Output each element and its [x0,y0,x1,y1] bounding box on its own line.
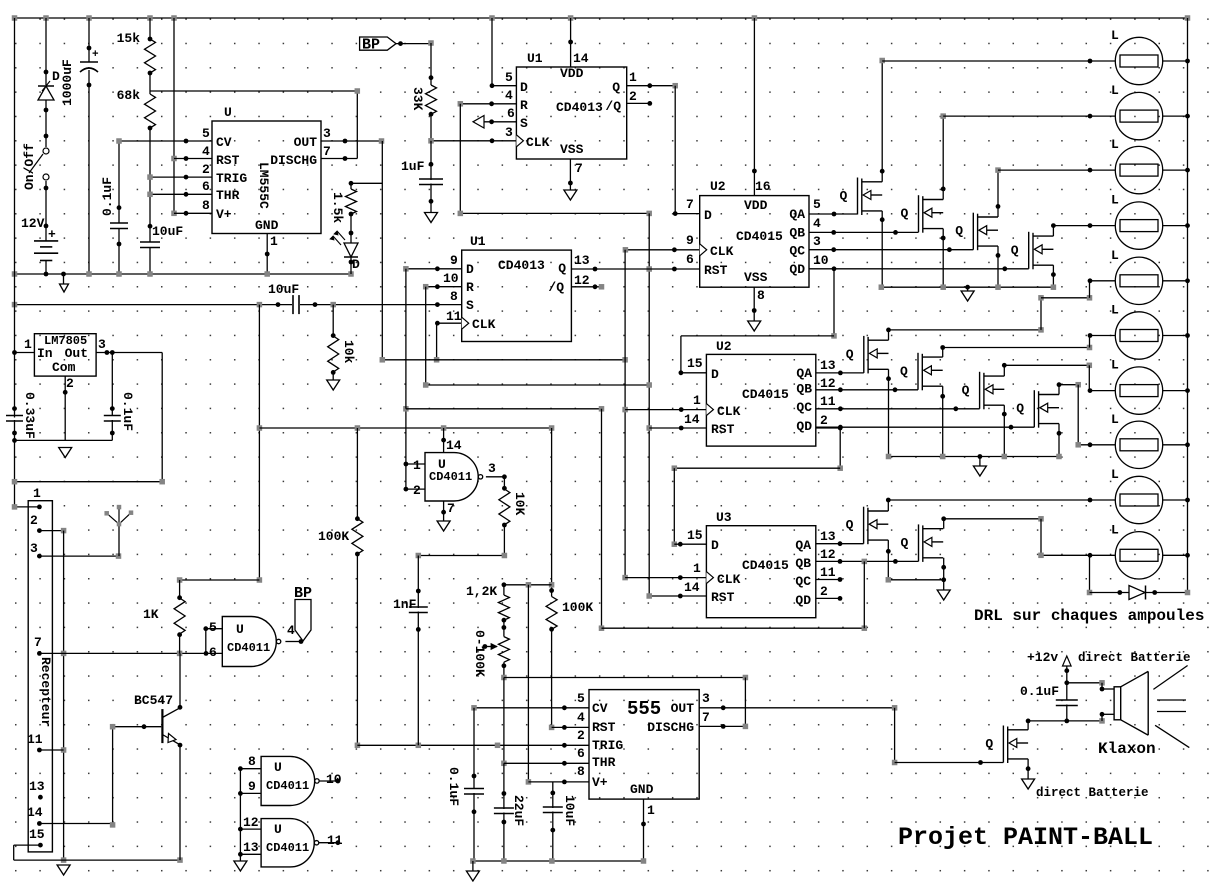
svg-text:6: 6 [507,106,515,121]
svg-text:22uF: 22uF [511,795,526,826]
svg-text:0.1uF: 0.1uF [120,392,135,431]
wire lamp row y=390.6 [1089,390,1115,392]
wire clock to CLK pin1 of U3 [625,577,706,579]
wire QD pin10 to M4 gate [809,268,1029,270]
svg-text:5: 5 [209,620,217,635]
wire QD2 of U2b to M8 gate [816,426,1035,428]
wire QA pin5 to M1 gate [809,213,858,215]
svg-text:BP: BP [362,37,380,54]
wire D pin5 of U1 [491,18,493,86]
svg-text:U: U [224,105,232,120]
wire NAND1 output pin3 [486,476,505,478]
svg-text:VSS: VSS [560,142,584,157]
svg-text:6: 6 [686,252,694,267]
wire NAND1 input2 [406,488,425,490]
wire QC11 of U2b to M7 gate [816,408,980,410]
svg-text:8: 8 [202,198,210,213]
svg-text:CD4015: CD4015 [742,558,789,573]
wire M11 source [1027,759,1029,779]
svg-text:U: U [274,760,282,775]
shift register U2 CD4015 (top) [700,196,809,288]
svg-text:U1: U1 [470,234,486,249]
svg-text:QD: QD [795,593,811,608]
wire BC547 emitter [179,745,181,860]
svg-text:4: 4 [813,216,821,231]
regulator LM7805 [34,334,96,376]
lamp L (row y=335.5) [1115,312,1162,359]
svg-text:D: D [520,80,528,95]
resistor 10K [503,477,505,489]
svg-text:2: 2 [577,728,585,743]
svg-text:Q: Q [962,383,970,398]
svg-text:6: 6 [202,179,210,194]
wire middle cluster source rail [889,456,1060,458]
svg-text:/Q: /Q [605,99,621,114]
wire left rail upper [14,18,16,418]
wire QD pin10 branch to U2b D [833,269,835,336]
wire CV row of 555b [474,707,589,709]
wire reset to RST pin14 of U3 [649,595,706,597]
wire right return rail [1187,18,1189,593]
lamp L (row y=61) [1115,37,1162,84]
wire bottom ground rail (555b) [473,860,644,862]
svg-text:RST: RST [704,263,728,278]
wire /Q pin2 of U1 (stub) [627,102,650,104]
svg-text:QA: QA [795,538,811,553]
resistor 1,2K [503,585,505,595]
wire NAND1 input1 [406,463,425,465]
wire M5 source [888,369,890,456]
svg-text:10uF: 10uF [562,795,577,826]
resistor 1K [180,579,260,581]
svg-text:6: 6 [577,746,585,761]
svg-text:D: D [711,538,719,553]
switch On/Off [43,148,49,154]
svg-text:L: L [1111,248,1119,263]
svg-text:0.33uF: 0.33uF [22,392,37,439]
capacitor 1nF [417,556,419,609]
wire M10 drain to lamp10 [943,519,945,529]
wire 12V distribution vertical [258,305,260,580]
svg-text:6: 6 [209,645,217,660]
svg-text:OUT: OUT [294,135,318,150]
wire Com pin2 of LM7805 [64,376,66,440]
svg-text:1K: 1K [143,607,159,622]
ground (U2 VSS) [748,321,761,331]
wire QB pin4 to M2 gate [809,231,919,233]
svg-text:7: 7 [575,161,583,176]
svg-text:In: In [37,346,53,361]
svg-text:14: 14 [684,412,700,427]
svg-text:QA: QA [796,366,812,381]
svg-text:555: 555 [627,698,661,720]
wire pot to DISCHG [504,677,746,679]
wire lamp row y=444.8 [1078,444,1115,446]
svg-text:2: 2 [629,89,637,104]
wire V+ row [527,585,529,782]
svg-text:2: 2 [30,513,38,528]
svg-text:1uF: 1uF [401,159,425,174]
lamp L (row y=116.1) [1115,92,1162,139]
ground (555b rail) [472,861,474,871]
svg-text:QD: QD [789,262,805,277]
svg-text:THR: THR [216,188,240,203]
potentiometer 0-100K [498,637,509,663]
svg-text:GND: GND [255,218,279,233]
svg-text:Q: Q [558,261,566,276]
wire R pin4 of U1 [460,103,516,105]
svg-text:L: L [1111,28,1119,43]
svg-text:10uF: 10uF [152,224,183,239]
wire bottom-left ground row [14,859,180,861]
wire lamp row y=116.1 [943,115,1115,117]
svg-text:L: L [1111,303,1119,318]
svg-text:16: 16 [755,179,771,194]
wire QB12 of U3 to M10 gate [816,560,919,562]
wire V+ pin8 [174,212,212,214]
svg-text:1.5k: 1.5k [330,192,345,223]
transistor Q (M11 klaxon) [1003,726,1028,764]
svg-text:1,2K: 1,2K [466,584,497,599]
resistor 33K [430,43,432,85]
svg-text:12: 12 [574,273,590,288]
gate U CD4011 (spare B) [261,819,314,867]
capacitor 10uF (coupling) [293,295,299,314]
flag BP (pushbutton net) [360,37,396,50]
svg-text:U3: U3 [716,510,732,525]
svg-text:QC: QC [796,400,812,415]
wire S pin8 of U1b from 10uF [300,304,462,306]
svg-text:2: 2 [820,584,828,599]
svg-text:7: 7 [686,197,694,212]
wire Out pin3 of LM7805 [96,352,162,354]
wire pin2 to ground chain [37,528,42,533]
svg-text:Q: Q [901,535,909,550]
svg-text:0.1uF: 0.1uF [1020,684,1059,699]
wire VSS pin8 of U2 [753,287,755,321]
wire lamp row y=280.8 [1090,280,1116,282]
svg-text:BC547: BC547 [134,693,173,708]
flip-flop U1 CD4013 (second) [462,250,572,341]
flip-flop U1 CD4013 (top) [516,67,626,159]
svg-text:OUT: OUT [671,701,695,716]
svg-text:12: 12 [243,815,259,830]
svg-text:QD: QD [796,419,812,434]
svg-text:direct Batterie: direct Batterie [1036,786,1149,800]
wire /Q pin12 of U1b stub [571,286,601,288]
wire OUT to clock bus [381,141,383,360]
svg-text:0-100K: 0-100K [472,630,487,677]
svg-text:D: D [711,367,719,382]
wire CV pin5 [119,140,212,142]
svg-text:L: L [1111,137,1119,152]
wire DRL diode row [1090,592,1130,594]
wire 10K to 1nF node [418,555,504,557]
wire 555b OUT to M11 gate [894,708,896,763]
svg-text:CD4011: CD4011 [429,470,472,484]
wire reset to RST pin14 of U2b [649,427,706,429]
wire rail to connector pin1 [15,506,40,508]
wire lamp row y=335.5 [1090,335,1116,337]
wire CLK pin9 of U2 [625,249,699,251]
wire V+ feed row [504,584,552,586]
wire lamp row y=225.6 [1053,225,1115,227]
svg-text:CV: CV [216,135,232,150]
svg-text:5: 5 [577,691,585,706]
svg-text:14: 14 [684,580,700,595]
svg-text:GND: GND [630,782,654,797]
wire top cluster source rail [881,286,1053,288]
lamp L (row y=444.8) [1115,421,1162,468]
svg-text:3: 3 [488,461,496,476]
svg-text:9: 9 [450,253,458,268]
svg-text:Klaxon: Klaxon [1098,740,1156,758]
wire BP to 33K [396,43,431,45]
svg-text:VDD: VDD [560,66,584,81]
svg-text:CLK: CLK [472,317,496,332]
wire +12V top rail [15,17,1188,19]
svg-text:10K: 10K [512,492,527,516]
svg-text:0.1uF: 0.1uF [100,177,115,216]
svg-text:U: U [236,622,244,637]
wire M8 drain to lamp8 [1058,385,1060,395]
svg-text:CD4015: CD4015 [742,387,789,402]
svg-text:L: L [1111,522,1119,537]
wire NAND2 input5 tie [206,628,223,630]
svg-text:Q: Q [1011,243,1019,258]
svg-text:D: D [466,262,474,277]
wire M6 drain to lamp6 [942,348,944,358]
wire THR row [504,762,589,764]
ground (NAND1) [437,521,450,531]
wire VDD pin14 of U1 [570,18,572,67]
capacitor 0.1uF (CV) [118,141,120,223]
svg-text:11: 11 [327,833,343,848]
svg-text:CD4013: CD4013 [556,100,603,115]
svg-text:D: D [352,257,360,272]
wire 100K feed vertical (TRIG net) [356,428,358,519]
svg-text:V+: V+ [592,775,608,790]
svg-text:13: 13 [243,840,259,855]
wire lamp row y=500 [888,499,1115,501]
transistor Q (M8) [1034,390,1059,428]
transistor Q (M2) [919,195,944,233]
svg-text:3: 3 [813,234,821,249]
timer U LM555C [212,121,321,234]
speaker Klaxon [1114,687,1121,720]
capacitor 1uF [430,141,432,180]
svg-text:11: 11 [446,309,462,324]
wire pin3 to antenna [37,554,42,559]
ground (bottom cluster) [943,580,945,590]
svg-text:15: 15 [687,528,703,543]
svg-text:+12v: +12v [1027,650,1058,665]
resistor 68k [145,94,156,128]
svg-text:9: 9 [686,233,694,248]
gate U CD4011 (spare A) [261,756,315,805]
svg-text:Q: Q [900,364,908,379]
wire RST pin6 of U2 / reset row [571,268,699,270]
wire THR pin6 [150,193,212,195]
svg-text:RST: RST [216,153,240,168]
svg-text:100K: 100K [562,600,593,615]
wire lamp row y=61 [882,60,1115,62]
svg-text:U2: U2 [716,339,732,354]
wire 12V distribution row [259,427,551,429]
timer 555 (alarm) [589,690,699,800]
svg-text:U: U [274,822,282,837]
wire M7 drain to lamp7 [1003,365,1005,376]
lamp L (row y=500) [1115,476,1162,523]
wire GND pin1 of 555b [643,799,645,861]
svg-text:3: 3 [30,541,38,556]
svg-text:RST: RST [711,422,735,437]
svg-text:15: 15 [29,827,45,842]
capacitor 1000uF [88,18,90,62]
wire M4 drain to lamp4 [1052,226,1054,237]
svg-text:1nF: 1nF [393,597,417,612]
transistor Q (M9) [864,507,889,545]
wire QD2 of U3 stub [816,597,840,599]
transistor Q (M4) [1029,232,1054,269]
svg-text:L: L [1111,358,1119,373]
svg-text:S: S [466,298,474,313]
wire Out net down-left to +5V rail [161,353,163,482]
resistor 100K (trigger) [355,516,360,556]
svg-text:7: 7 [34,635,42,650]
svg-text:11: 11 [820,394,836,409]
svg-text:Recepteur: Recepteur [38,657,53,727]
svg-text:QB: QB [789,226,805,241]
svg-text:13: 13 [29,779,45,794]
wire S pin6 of U1 with input arrow [484,121,516,123]
capacitor 0.33uF [6,416,23,422]
svg-text:BP: BP [294,585,312,602]
ground (U1 VSS) [564,190,577,200]
svg-text:1000uF: 1000uF [60,59,75,106]
wire M5 drain to lamp5 [888,330,890,340]
capacitor 0.1uF (7805 out) [111,353,113,416]
svg-text:2: 2 [413,483,421,498]
transistor Q (M10) [919,524,944,562]
svg-text:/Q: /Q [548,280,564,295]
svg-text:CD4011: CD4011 [266,779,309,793]
svg-text:1: 1 [693,393,701,408]
wire OUT pin3 [321,140,382,142]
svg-text:CD4013: CD4013 [498,258,545,273]
wire DISCHG pin7 [321,158,357,160]
svg-text:3: 3 [505,125,513,140]
transistor Q (M7) [980,372,1005,410]
svg-text:DISCHG: DISCHG [270,153,317,168]
wire BC547 base [113,726,162,728]
wire NAND3 inputs [240,768,261,770]
svg-text:Q: Q [846,518,854,533]
wire CLK pin11 of U1b [437,322,462,324]
wire NAND2 output to BP flag [285,641,301,643]
svg-text:THR: THR [592,755,616,770]
wire M7 source [1003,405,1005,456]
wire QC pin3 to M3 gate [809,249,973,251]
svg-text:10: 10 [813,253,829,268]
svg-text:1: 1 [413,458,421,473]
transistor Q (M3) [973,213,998,251]
ground (M11, direct Batterie) [1022,779,1035,789]
svg-text:CLK: CLK [717,572,741,587]
svg-text:DISCHG: DISCHG [647,720,694,735]
svg-text:1: 1 [629,70,637,85]
svg-text:13: 13 [820,529,836,544]
svg-text:8: 8 [450,289,458,304]
antenna [118,524,120,556]
svg-text:CD4011: CD4011 [266,841,309,855]
svg-text:Q: Q [985,737,993,752]
svg-text:3: 3 [323,126,331,141]
node pin1 [37,505,42,510]
wire NAND4 output [319,842,338,844]
lamp L (row y=280.8) [1115,257,1162,304]
svg-text:68k: 68k [117,88,141,103]
svg-text:+: + [92,49,99,61]
svg-text:Q: Q [901,206,909,221]
wire VDD2 branch (100K RST net) [551,428,553,597]
wire QA13 of U3 to M9 gate [816,543,864,545]
svg-text:D: D [52,69,60,84]
wire R pin10 net down [425,287,427,385]
wire R pin10 of U1b [426,286,462,288]
wire NAND1 pin7 ground stub [443,501,445,521]
svg-text:2: 2 [66,376,74,391]
wire QB12 of U2b to M6 gate [816,389,918,391]
svg-text:U1: U1 [527,51,543,66]
svg-text:12: 12 [820,547,836,562]
svg-text:DRL sur chaques ampoules: DRL sur chaques ampoules [974,607,1204,625]
svg-text:D: D [704,208,712,223]
svg-text:14: 14 [573,51,589,66]
svg-text:7: 7 [447,501,455,516]
svg-text:33K: 33K [410,87,425,111]
svg-text:1: 1 [24,337,32,352]
wire QA13 of U2b to M5 gate [816,372,864,374]
svg-text:8: 8 [577,764,585,779]
wire CLK pin3 of U1 [431,140,516,142]
svg-text:direct Batterie: direct Batterie [1078,651,1191,665]
wire BC547 collector [179,653,181,707]
svg-text:On/Off: On/Off [22,143,37,190]
ground (10k) [327,380,340,390]
wire QD pin2 of U2b to U3 D [816,427,840,429]
svg-text:12V: 12V [21,216,45,231]
capacitor 0.1uF (555b CV) [473,708,475,789]
diode D (series) [38,86,54,100]
wire M6 source [942,386,944,456]
wire lamp row y=170.1 [998,169,1115,171]
svg-text:RST: RST [592,720,616,735]
wire M8 source [1058,424,1060,457]
svg-text:L: L [1111,412,1119,427]
wire pot node down to THR [503,678,505,764]
wire 7805 ground row [15,439,113,441]
transistor Q (M5) [864,336,889,374]
wire M9 drain to lamp9 [887,500,889,511]
wire VDD pin16 of U2 [753,18,755,196]
svg-text:12: 12 [820,376,836,391]
svg-text:4: 4 [577,710,585,725]
wire pin14 to BC547 base [37,821,42,826]
svg-text:5: 5 [505,70,513,85]
wire M11 drain node [1027,721,1029,730]
wire OUT pin3 of 555b [699,707,894,709]
